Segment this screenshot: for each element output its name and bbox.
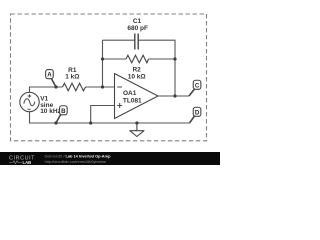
junction node dot at output feedback xyxy=(173,94,176,97)
CircuitLab logo xyxy=(9,156,35,165)
voltage source V1 circle xyxy=(20,92,39,111)
op-amp non-inverting plus mark xyxy=(117,103,122,108)
svg-text:C: C xyxy=(195,82,200,89)
V1 minus mark xyxy=(27,108,30,110)
svg-text:10 kHz: 10 kHz xyxy=(40,108,61,115)
junction node dot at R1 feedback tap xyxy=(101,85,104,88)
node flag A xyxy=(46,70,54,79)
node flag D xyxy=(193,107,201,116)
svg-text:1 kΩ: 1 kΩ xyxy=(65,74,79,81)
node flag B pointer xyxy=(56,114,61,123)
footer title text xyxy=(45,154,112,165)
node flag A pointer xyxy=(52,79,56,87)
junction node dot at ground stub xyxy=(135,121,138,124)
junction node dot at node B attach xyxy=(54,121,57,124)
svg-text:TL081: TL081 xyxy=(123,97,142,104)
svg-text:OA1: OA1 xyxy=(123,90,137,97)
junction node dot at R2 left xyxy=(101,57,104,60)
wire: feedback left vertical xyxy=(102,40,104,87)
V1 plus mark xyxy=(28,94,32,98)
svg-text:A: A xyxy=(47,72,52,79)
node flag B xyxy=(60,106,68,115)
svg-text:D: D xyxy=(195,109,200,116)
node flag D pointer xyxy=(190,116,195,123)
resistor R1 zigzag xyxy=(63,83,86,91)
V1 sine squiggle xyxy=(24,99,35,106)
wire: C1 branch right xyxy=(138,40,175,96)
op-amp inverting minus mark xyxy=(117,86,122,88)
resistor R2 zigzag xyxy=(126,55,149,63)
capacitor C1 plates xyxy=(134,34,136,50)
svg-text:Delmon35 / Lab 14 Inverted Op-: Delmon35 / Lab 14 Inverted Op-Amp xyxy=(45,154,112,159)
junction node dot at node A attach xyxy=(54,85,57,88)
wire: op-amp non-inverting input L xyxy=(91,106,115,124)
wire: V1 top stem to R1 left xyxy=(30,87,63,93)
svg-text:10 kΩ: 10 kΩ xyxy=(128,73,146,80)
ground symbol xyxy=(136,123,138,131)
footer bar xyxy=(0,152,220,165)
op-amp OA1 triangle xyxy=(115,74,159,119)
wire: R1 right to op-amp inverting input xyxy=(86,86,115,88)
svg-text:http:⁄⁄circuitlab.com⁄cms16b9y: http:⁄⁄circuitlab.com⁄cms16b9ybmlue xyxy=(45,159,107,164)
junction node dot at R2 right xyxy=(173,57,176,60)
wire: R2 branch right xyxy=(149,58,176,60)
wire: R2 branch left xyxy=(103,58,127,60)
svg-text:680 pF: 680 pF xyxy=(127,25,148,32)
node flag C xyxy=(193,80,201,89)
junction node dot at non-inverting ground rail xyxy=(89,121,92,124)
wire: V1 bottom stem and bottom rail to node D xyxy=(30,112,190,124)
svg-text:B: B xyxy=(61,108,66,115)
svg-text:LAB: LAB xyxy=(23,160,32,165)
node flag C pointer xyxy=(189,89,195,96)
dashed selection border xyxy=(11,14,207,141)
wire: op-amp output to node C pointer xyxy=(158,95,189,97)
wire: C1 branch left xyxy=(103,39,135,41)
